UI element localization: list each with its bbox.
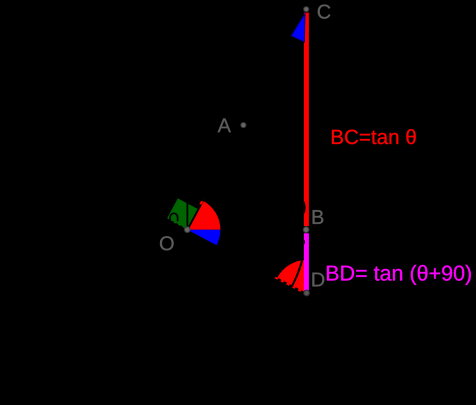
angle sector BOD (blue) at O <box>187 230 220 245</box>
angle sector BDO (red) at D <box>277 260 306 293</box>
segment BC (red) <box>304 13 309 227</box>
point D <box>304 290 310 296</box>
theta glyph arch on green square <box>170 213 178 221</box>
angle sector BOC (red) at O <box>187 201 220 230</box>
dashed red radius border of sector at O <box>187 197 205 230</box>
label D <box>312 273 324 287</box>
label B <box>313 210 324 224</box>
point O <box>184 227 190 233</box>
y-axis segment through O (black) <box>186 197 188 232</box>
label A <box>218 118 231 132</box>
unit circle centered O through B (black) <box>69 111 306 348</box>
circle bite notch on segment BC <box>304 202 306 213</box>
point B <box>303 227 309 233</box>
label O <box>160 236 174 250</box>
vector arrowhead at C (blue) <box>291 14 305 42</box>
segment BD (magenta) <box>304 233 309 290</box>
line OC (black) <box>187 196 205 230</box>
text BD= tan (theta+90) (magenta) <box>327 265 471 285</box>
dashed black border on green square lower edge <box>167 219 187 229</box>
circle bite notch on segment BD <box>304 240 305 244</box>
text BC=tan theta (red) <box>332 129 416 144</box>
right-angle square marker at O (green) <box>167 198 199 229</box>
label C <box>318 5 331 19</box>
dashed red radius border of sector at D <box>275 277 307 294</box>
red dash at sector corner <box>200 201 202 204</box>
point C <box>304 7 309 12</box>
point A <box>241 123 246 128</box>
